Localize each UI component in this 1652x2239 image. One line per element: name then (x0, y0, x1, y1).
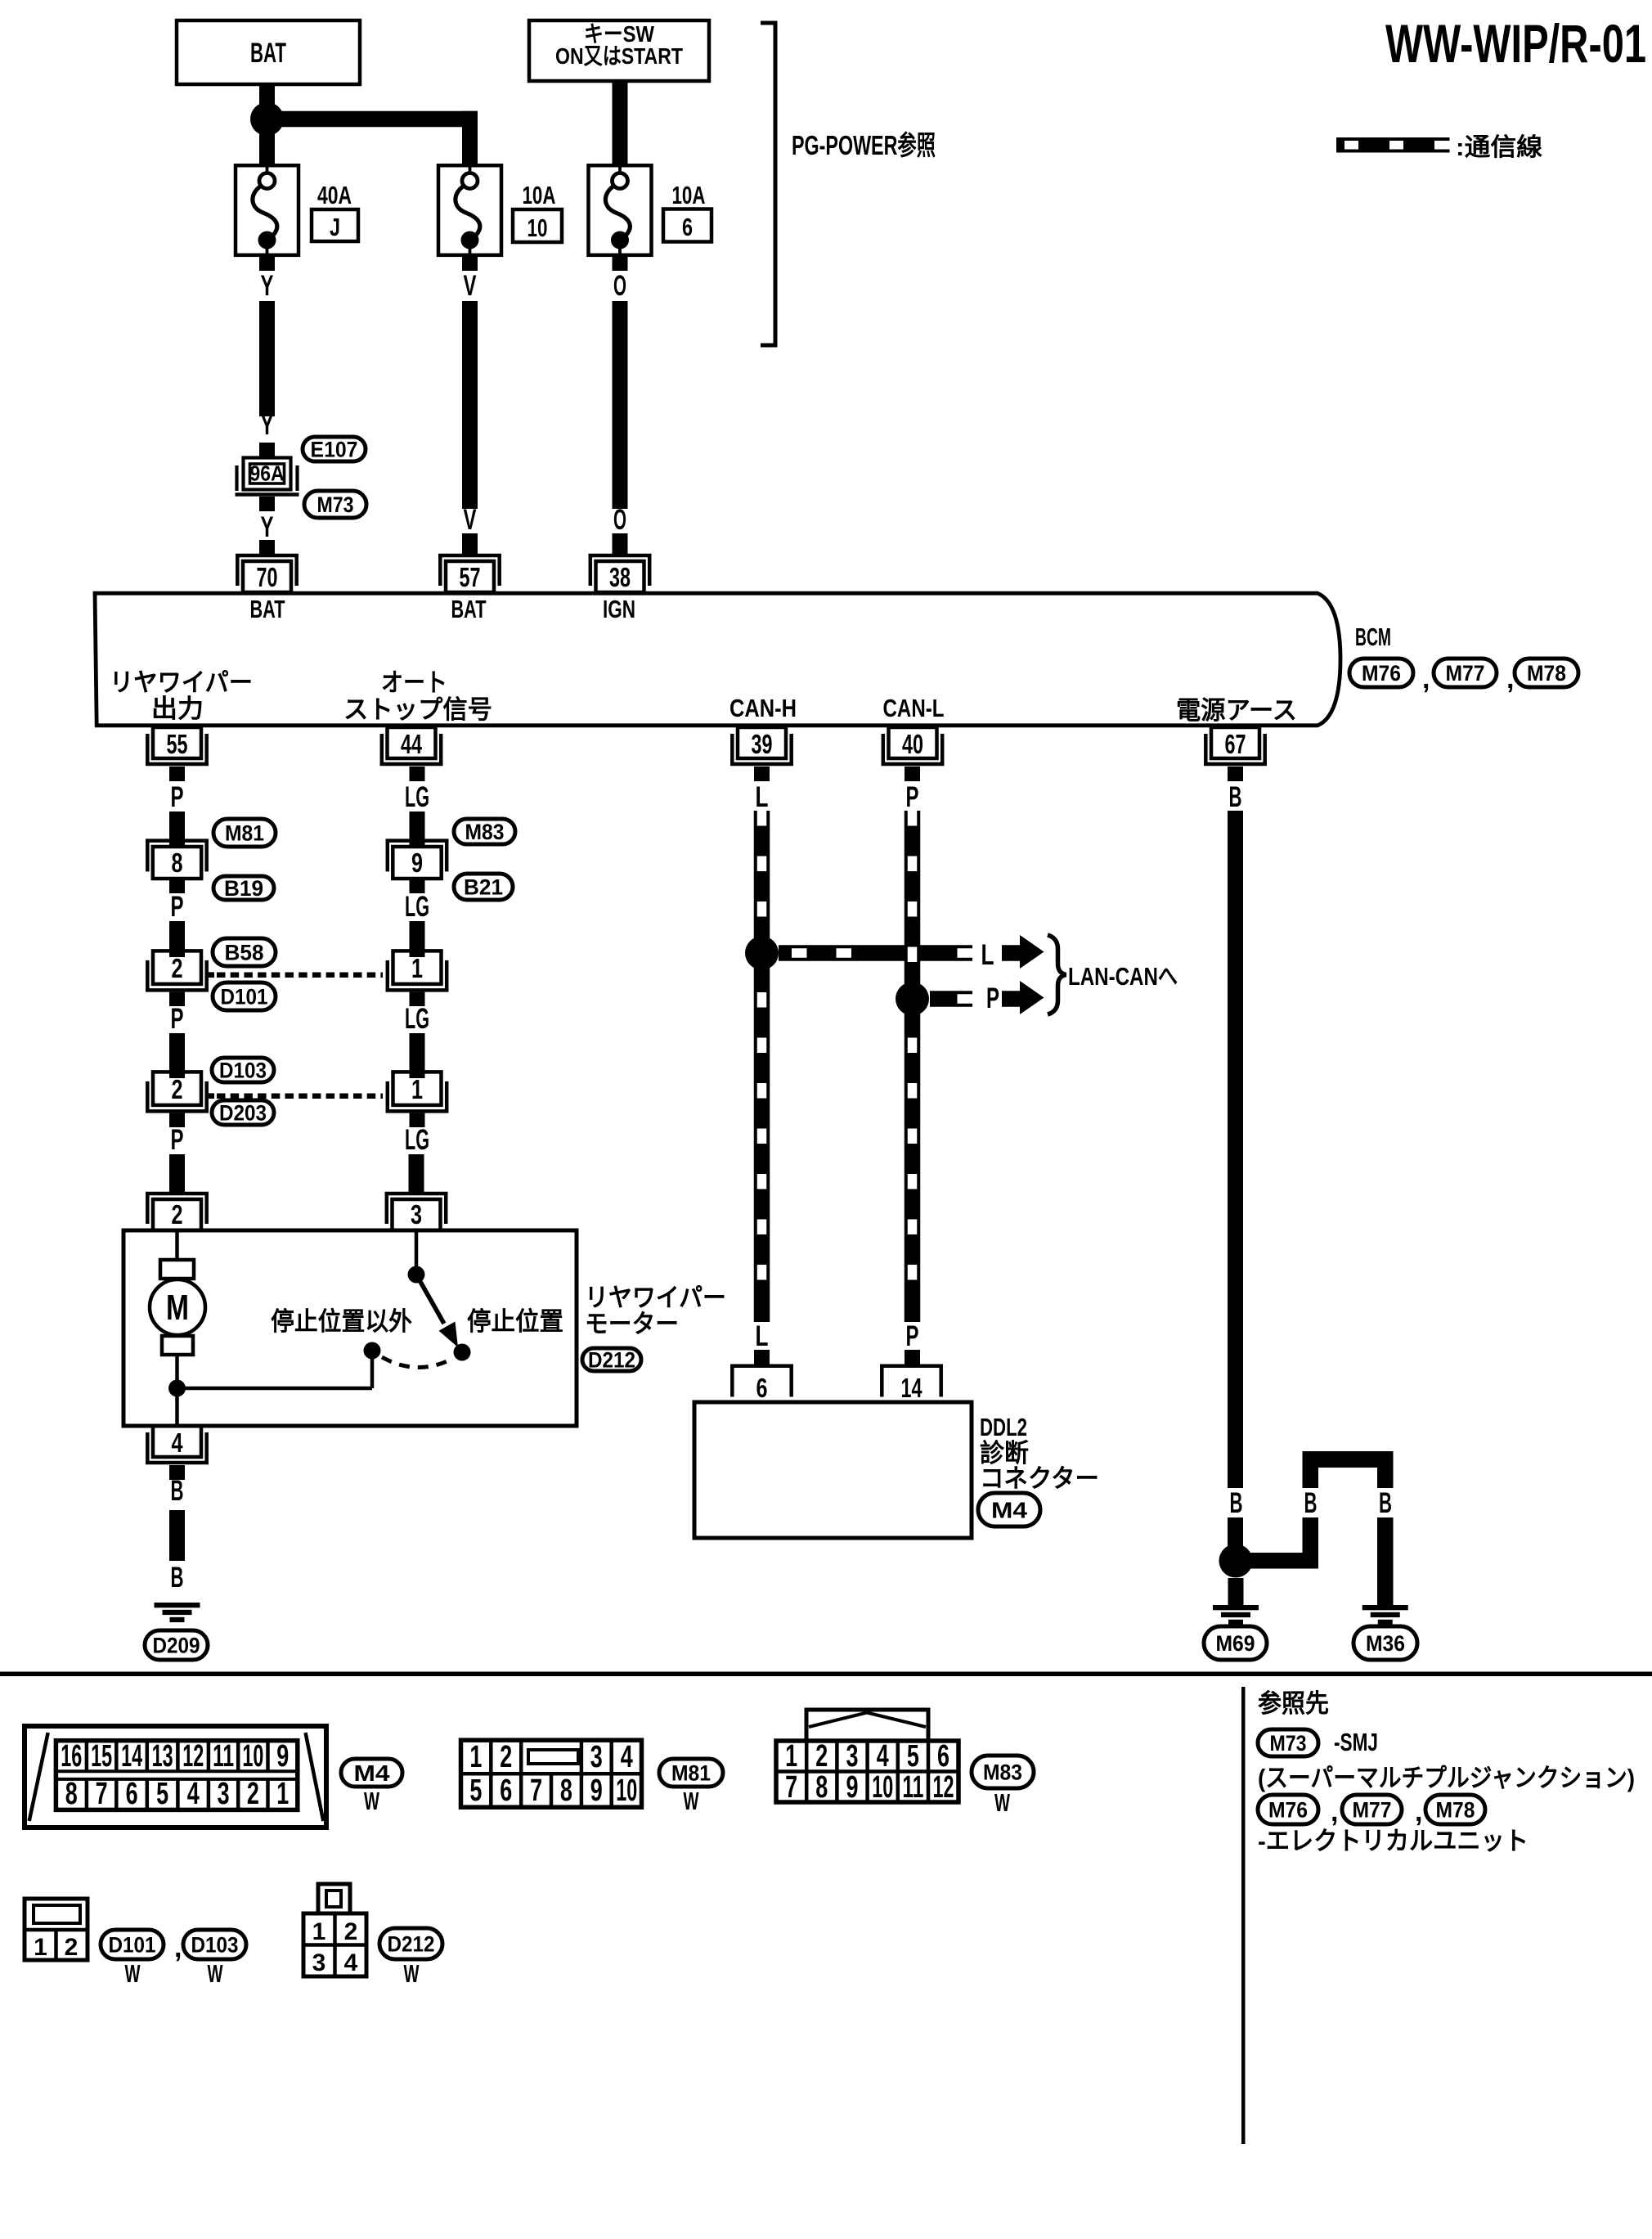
svg-text::通信線: :通信線 (1456, 133, 1542, 161)
svg-text:11: 11 (902, 1770, 923, 1805)
svg-text:,: , (1331, 1796, 1338, 1828)
svg-text:,: , (1506, 663, 1514, 695)
svg-text:9: 9 (276, 1739, 289, 1774)
svg-text:L: L (981, 939, 994, 971)
svg-text:M36: M36 (1366, 1631, 1405, 1656)
svg-text:3: 3 (218, 1777, 230, 1811)
svg-text:3: 3 (590, 1740, 603, 1774)
svg-text:55: 55 (167, 729, 188, 759)
svg-text:LG: LG (405, 1124, 429, 1156)
svg-text:4: 4 (344, 1949, 358, 1976)
svg-text:9: 9 (590, 1774, 603, 1808)
svg-text:2: 2 (65, 1934, 79, 1961)
svg-text:B: B (1304, 1487, 1318, 1519)
svg-text:Y: Y (261, 511, 274, 543)
svg-text:B58: B58 (225, 941, 264, 965)
svg-text:5: 5 (156, 1777, 168, 1811)
svg-text:J: J (330, 213, 340, 241)
svg-text:70: 70 (257, 562, 278, 592)
svg-text:1: 1 (785, 1739, 797, 1774)
svg-text:7: 7 (530, 1774, 542, 1808)
svg-text:8: 8 (815, 1770, 828, 1805)
svg-text:6: 6 (756, 1373, 768, 1403)
svg-text:10A: 10A (523, 181, 556, 209)
svg-text:B: B (1230, 1487, 1243, 1519)
svg-text:6: 6 (500, 1774, 512, 1808)
svg-text:M76: M76 (1362, 661, 1401, 686)
svg-text:1: 1 (312, 1918, 326, 1945)
svg-text:LAN-CANへ: LAN-CANへ (1068, 962, 1178, 991)
svg-text:4: 4 (172, 1427, 183, 1458)
svg-text:BAT: BAT (250, 595, 285, 623)
svg-text:コネクター: コネクター (980, 1464, 1099, 1493)
svg-text:P: P (171, 781, 184, 813)
svg-text:4: 4 (877, 1739, 889, 1774)
svg-text:B19: B19 (224, 876, 263, 901)
svg-text:M4: M4 (991, 1498, 1027, 1523)
svg-text:CAN-L: CAN-L (883, 694, 945, 722)
svg-text:D103: D103 (191, 1933, 239, 1958)
svg-text:6: 6 (937, 1739, 949, 1774)
svg-text:P: P (171, 1124, 184, 1156)
svg-text:B: B (171, 1475, 184, 1507)
svg-text:B: B (171, 1562, 184, 1594)
svg-text:M83: M83 (465, 820, 505, 844)
svg-text:1: 1 (411, 953, 423, 983)
svg-text:15: 15 (91, 1739, 112, 1774)
svg-text:DDL2: DDL2 (980, 1413, 1027, 1441)
svg-text:D103: D103 (219, 1059, 267, 1083)
svg-text:参照先: 参照先 (1258, 1689, 1329, 1718)
svg-text:V: V (464, 504, 477, 536)
svg-text:M: M (166, 1288, 189, 1328)
svg-text:モーター: モーター (585, 1310, 679, 1338)
svg-text:2: 2 (344, 1918, 358, 1945)
svg-text:P: P (906, 781, 919, 813)
svg-text:-エレクトリカルユニット: -エレクトリカルユニット (1258, 1827, 1529, 1855)
svg-text:WW-WIP/R-01: WW-WIP/R-01 (1385, 13, 1646, 74)
svg-text:L: L (756, 781, 769, 813)
svg-text:M76: M76 (1268, 1798, 1308, 1823)
svg-text:電源アース: 電源アース (1176, 696, 1297, 725)
svg-text:D101: D101 (221, 985, 268, 1009)
svg-text:,: , (1422, 663, 1430, 695)
svg-text:4: 4 (621, 1740, 633, 1774)
svg-text:M73: M73 (317, 492, 354, 517)
svg-text:D212: D212 (588, 1348, 635, 1373)
svg-text:P: P (986, 982, 999, 1014)
svg-text:W: W (364, 1787, 379, 1815)
svg-text:BAT: BAT (451, 595, 487, 623)
svg-text:13: 13 (152, 1739, 173, 1774)
svg-text:D101: D101 (109, 1933, 156, 1958)
svg-text:Y: Y (261, 409, 274, 441)
svg-text:O: O (613, 504, 626, 536)
svg-text:D203: D203 (219, 1101, 267, 1126)
svg-text:2: 2 (815, 1739, 828, 1774)
svg-text:ON又はSTART: ON又はSTART (555, 43, 683, 69)
svg-text:-SMJ: -SMJ (1334, 1728, 1378, 1756)
svg-text:16: 16 (61, 1739, 82, 1774)
svg-text:10A: 10A (672, 181, 706, 209)
svg-text:40: 40 (902, 729, 923, 759)
svg-text:W: W (404, 1959, 420, 1988)
svg-text:B: B (1379, 1487, 1392, 1519)
svg-text:W: W (994, 1788, 1010, 1817)
svg-text:2: 2 (500, 1740, 512, 1774)
svg-text:M69: M69 (1216, 1631, 1255, 1656)
svg-text:1: 1 (469, 1740, 482, 1774)
svg-text:リヤワイパー: リヤワイパー (585, 1284, 726, 1312)
svg-text:W: W (125, 1959, 141, 1988)
svg-text:P: P (171, 891, 184, 923)
svg-text:8: 8 (65, 1777, 78, 1811)
svg-text:10: 10 (242, 1739, 263, 1774)
svg-text:40A: 40A (317, 181, 352, 209)
svg-text:P: P (171, 1003, 184, 1035)
svg-text:12: 12 (933, 1770, 954, 1805)
svg-text:44: 44 (401, 729, 422, 759)
svg-text:リヤワイパー: リヤワイパー (110, 668, 253, 697)
svg-text:2: 2 (172, 1074, 183, 1104)
svg-text:4: 4 (187, 1777, 200, 1811)
svg-text:1: 1 (276, 1777, 289, 1811)
svg-text:M78: M78 (1527, 661, 1566, 686)
svg-text:M77: M77 (1353, 1798, 1392, 1823)
svg-text:7: 7 (96, 1777, 108, 1811)
svg-text:2: 2 (172, 953, 183, 983)
svg-text:B: B (1229, 781, 1242, 813)
svg-text:W: W (208, 1959, 223, 1988)
svg-text:P: P (906, 1320, 919, 1352)
svg-text:O: O (613, 270, 626, 302)
svg-text:10: 10 (616, 1774, 637, 1808)
svg-text:D212: D212 (388, 1932, 435, 1957)
svg-text:10: 10 (872, 1770, 893, 1805)
svg-text:ストップ信号: ストップ信号 (343, 695, 492, 724)
svg-text:67: 67 (1225, 729, 1246, 759)
svg-text:8: 8 (172, 847, 183, 878)
svg-text:D209: D209 (153, 1634, 200, 1658)
svg-text:3: 3 (411, 1199, 422, 1230)
svg-text:B21: B21 (464, 875, 503, 900)
svg-text:2: 2 (247, 1777, 259, 1811)
svg-text:V: V (464, 270, 477, 302)
svg-text:12: 12 (182, 1739, 204, 1774)
svg-text:14: 14 (901, 1373, 923, 1403)
svg-text:E107: E107 (311, 438, 358, 462)
svg-text:3: 3 (846, 1739, 859, 1774)
svg-text:CAN-H: CAN-H (729, 694, 797, 722)
svg-text:M81: M81 (671, 1761, 711, 1786)
svg-text:,: , (1415, 1796, 1422, 1828)
svg-text:Y: Y (261, 270, 274, 302)
svg-text:1: 1 (411, 1074, 423, 1104)
svg-text:IGN: IGN (603, 595, 635, 623)
svg-text:オート: オート (381, 668, 447, 697)
svg-text:38: 38 (609, 562, 631, 592)
svg-text:M4: M4 (354, 1760, 390, 1786)
svg-text:8: 8 (560, 1774, 572, 1808)
svg-text:M83: M83 (983, 1760, 1022, 1785)
svg-text:5: 5 (469, 1774, 482, 1808)
svg-text:停止位置以外: 停止位置以外 (271, 1307, 412, 1336)
svg-text:PG-POWER参照: PG-POWER参照 (792, 130, 936, 160)
svg-text:3: 3 (312, 1949, 326, 1976)
svg-text:診断: 診断 (980, 1439, 1029, 1468)
svg-text:1: 1 (34, 1934, 47, 1961)
svg-text:M81: M81 (225, 821, 264, 846)
svg-text:5: 5 (907, 1739, 919, 1774)
svg-text:96A: 96A (250, 461, 285, 486)
svg-text:9: 9 (411, 847, 423, 878)
svg-text:出力: 出力 (151, 695, 204, 723)
svg-text:W: W (684, 1787, 699, 1815)
svg-text:57: 57 (460, 562, 481, 592)
svg-text:BCM: BCM (1355, 623, 1391, 651)
svg-text:停止位置: 停止位置 (467, 1307, 563, 1336)
svg-text:M73: M73 (1270, 1731, 1307, 1756)
svg-text:7: 7 (785, 1770, 797, 1805)
svg-text:11: 11 (213, 1739, 234, 1774)
svg-text:14: 14 (121, 1739, 142, 1774)
svg-text:9: 9 (846, 1770, 859, 1805)
svg-text:6: 6 (682, 213, 693, 241)
svg-text:2: 2 (172, 1199, 183, 1230)
svg-text:M77: M77 (1446, 661, 1485, 686)
svg-text:M78: M78 (1436, 1798, 1475, 1823)
svg-text:LG: LG (405, 1003, 429, 1035)
svg-text:,: , (174, 1932, 182, 1963)
svg-text:L: L (756, 1320, 769, 1352)
svg-text:6: 6 (126, 1777, 138, 1811)
svg-text:LG: LG (405, 781, 429, 813)
svg-text:39: 39 (752, 729, 773, 759)
svg-text:LG: LG (405, 891, 429, 923)
svg-text:10: 10 (527, 214, 548, 242)
svg-text:(スーパーマルチプルジャンクション): (スーパーマルチプルジャンクション) (1258, 1764, 1635, 1792)
svg-text:BAT: BAT (250, 38, 286, 69)
